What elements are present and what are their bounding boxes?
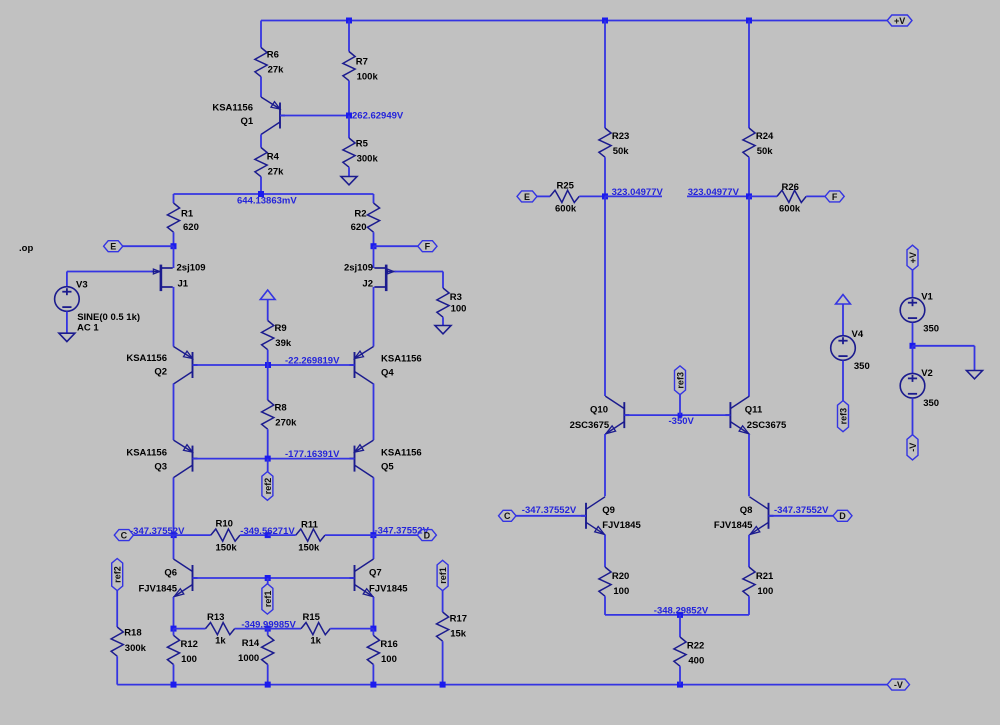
svg-text:Q10: Q10 [590,405,608,416]
wire arrow flag to R9 [267,300,269,321]
svg-text:-V: -V [908,443,918,452]
wire top rail to R23 [604,21,606,129]
svg-text:39k: 39k [275,338,292,349]
wire Q3-Q5 base rail [193,458,355,460]
wire E flag to R25 [537,195,550,197]
flag D (right) [833,510,852,521]
wire Q5 collector to node D [373,478,375,536]
wire node to R26 [749,195,777,197]
wire R4 to node 644mV [260,177,262,194]
wire R17 to bottom rail [442,641,444,684]
wire mid node to ground [913,345,975,347]
svg-text:1000: 1000 [238,653,259,664]
junction node 323V right [746,193,752,199]
wire node -177V to ref2 flag [267,459,269,472]
svg-text:ref3: ref3 [838,408,848,425]
svg-text:.op: .op [19,243,33,254]
svg-text:-347.37552V: -347.37552V [522,505,577,516]
transistor Q2 KSA1156 (PNP) [174,347,198,385]
svg-text:V1: V1 [921,291,933,302]
svg-text:R26: R26 [782,182,799,193]
svg-text:R17: R17 [450,613,467,624]
svg-text:100: 100 [613,586,629,597]
svg-text:150k: 150k [216,542,238,553]
resistor R24 50k [743,128,774,157]
wire R15 to node [330,628,373,630]
svg-text:ref1: ref1 [438,567,448,584]
transistor Q9 FJV1845 (NPN) [581,497,605,535]
junction node -349.99985V [265,626,271,632]
wire R22 to bottom rail [679,666,681,684]
svg-text:R20: R20 [612,571,629,582]
wire down to R3 [442,272,444,289]
flag E (left) [104,241,123,252]
wire node 262V to R5 [348,116,350,139]
wire R20-R21 horizontal [605,614,749,616]
svg-text:350: 350 [923,323,939,334]
wire R11 to node D [325,534,373,536]
wire top rail to R24 [748,21,750,129]
svg-text:V4: V4 [852,329,864,340]
wire R16 to bottom rail [372,665,374,685]
resistor R21 100 [743,567,774,597]
svg-text:100: 100 [381,654,397,665]
wire node to F flag [374,245,418,247]
resistor R12 100 [167,635,198,665]
junction node -348.29852V [677,612,683,618]
resistor R14 1000 [238,635,274,664]
svg-text:J1: J1 [178,279,189,290]
wire node to R11 [268,534,296,536]
svg-text:R13: R13 [207,612,224,623]
wire J2 drain to Q4 emitter [373,287,375,347]
wire node to ref1 flag [267,578,269,584]
wire C flag to Q9 base [516,515,586,517]
wire R12 to bottom rail [173,665,175,685]
svg-text:300k: 300k [125,643,147,654]
junction V1-V2 node [910,343,916,349]
resistor R9 39k [262,321,292,350]
svg-text:600k: 600k [555,204,577,215]
svg-text:R10: R10 [216,518,233,529]
svg-text:2sj109: 2sj109 [177,263,206,274]
svg-text:Q6: Q6 [164,568,177,579]
wire node C to Q6 collector [173,535,175,559]
svg-text:350: 350 [854,361,870,372]
svg-text:R14: R14 [242,638,260,649]
transistor Q6 FJV1845 (NPN) [174,559,198,597]
svg-text:R22: R22 [687,640,704,651]
wire node 323V to Q11 collector [748,196,750,396]
wire J2 gate to R3 [395,271,444,273]
junction node -177V [265,456,271,462]
svg-text:V2: V2 [921,368,933,379]
wire node E to J1 source [173,246,175,268]
svg-text:1k: 1k [215,635,226,646]
svg-text:+V: +V [908,252,918,263]
wire Q1 base to node 262V [280,115,349,117]
resistor R22 400 [674,637,704,666]
svg-text:27k: 27k [268,167,285,178]
svg-text:FJV1845: FJV1845 [369,584,408,595]
svg-text:644.13863mV: 644.13863mV [237,195,297,206]
wire Q3 collector to node C [173,478,175,536]
wire to V3 top [66,272,68,287]
junction top rail / R7 [346,18,352,24]
svg-text:D: D [839,511,846,521]
svg-text:300k: 300k [357,154,379,165]
wire to R1 [173,194,175,203]
svg-text:Q9: Q9 [602,505,615,516]
wire V1 to mid node [912,323,914,346]
wire R14 to bottom rail [267,665,269,685]
svg-text:+V: +V [894,16,905,26]
wire node F to J2 source [373,246,375,268]
svg-text:Q7: Q7 [369,568,382,579]
wire R25 to node [579,195,605,197]
wire R21 to node -348V [748,596,750,615]
wire R5 to ground [348,167,350,176]
wire R26 to F flag [806,195,825,197]
transistor Q7 FJV1845 (NPN) [350,559,374,597]
svg-text:262.62949V: 262.62949V [352,111,404,122]
svg-text:2SC3675: 2SC3675 [570,420,610,431]
wire R9 to node -22V [267,350,269,365]
resistor R16 100 [367,635,398,665]
flag C (right) [499,510,517,521]
svg-text:Q2: Q2 [154,366,167,377]
svg-text:600k: 600k [779,204,801,215]
voltage source V1 [900,298,925,323]
svg-text:R24: R24 [756,131,774,142]
wire Q11 emitter to Q8 collector [748,434,750,496]
svg-text:E: E [110,242,116,252]
resistor R25 600k [550,181,579,215]
svg-text:R23: R23 [612,131,629,142]
svg-text:KSA1156: KSA1156 [381,353,422,364]
svg-text:Q11: Q11 [745,405,763,416]
svg-text:150k: 150k [298,542,320,553]
svg-text:R25: R25 [557,181,575,192]
resistor R18 300k [111,627,147,656]
wire R7 to node 262V [348,81,350,116]
svg-text:R5: R5 [356,139,369,150]
resistor R13 1k [206,612,235,647]
resistor R4 27k [255,148,284,178]
wire ref1 flag to R17 [442,591,444,612]
resistor R23 50k [599,128,629,157]
flag -V (bottom rail) [887,679,909,690]
junction top rail / R24 [746,18,752,24]
junction node E (left) [171,243,177,249]
wire top rail to R7 [348,21,350,52]
svg-text:SINE(0 0.5 1k): SINE(0 0.5 1k) [77,312,140,323]
svg-text:FJV1845: FJV1845 [138,584,177,595]
wire J1 drain to Q2 emitter [173,287,175,347]
svg-text:-347.37552V: -347.37552V [774,505,829,516]
flag ref3 (center) [675,366,686,395]
junction node 644mV [258,191,264,197]
junction node -22V [265,362,271,368]
transistor Q1 KSA1156 (PNP) [261,97,285,135]
junction Q7 emitter node [370,626,376,632]
transistor Q5 KSA1156 (PNP) [350,440,374,478]
wire ref2 flag to R18 [116,590,118,627]
svg-text:E: E [524,192,530,202]
wire R23 to node 323V left [604,157,606,196]
wire ref3 flag to node -350V [679,395,681,415]
junction bottom rail R16 [370,682,376,688]
wire V3 to J1 gate [67,271,153,273]
resistor R2 620 [351,203,380,233]
svg-text:R11: R11 [301,519,319,530]
svg-text:2sj109: 2sj109 [344,263,373,274]
svg-text:Q5: Q5 [381,462,394,473]
svg-text:R2: R2 [354,209,366,220]
svg-text:F: F [832,192,838,202]
svg-text:FJV1845: FJV1845 [714,520,753,531]
wire Q1 collector to R4 [260,135,262,148]
svg-text:V3: V3 [76,279,88,290]
resistor R8 270k [262,400,298,429]
svg-text:F: F [425,242,431,252]
transistor Q10 2SC3675 (NPN) [605,396,629,434]
arrow flag above V4 [836,295,851,305]
svg-text:100: 100 [757,586,773,597]
svg-text:350: 350 [923,398,939,409]
wire +V flag to V1 [912,270,914,297]
flag F (right) [825,191,844,202]
wire R8 to node -177V [267,429,269,458]
svg-text:R8: R8 [275,403,287,414]
junction top rail / R23 [602,18,608,24]
svg-text:R7: R7 [356,57,368,68]
svg-text:Q3: Q3 [154,462,167,473]
transistor Q11 2SC3675 (NPN) [725,396,749,434]
wire down to ground [974,346,976,371]
svg-text:ref1: ref1 [263,591,273,608]
wire V3 bottom to ground [66,312,68,334]
wire arrow flag to V4 [842,304,844,335]
flag +V (top rail) [887,15,912,26]
svg-text:R15: R15 [303,612,321,623]
wire R13 to node [235,628,268,630]
transistor Q4 KSA1156 (PNP) [350,347,374,385]
svg-text:R16: R16 [380,639,397,650]
svg-text:Q1: Q1 [241,116,254,127]
ground right of V1/V2 [967,371,983,379]
svg-text:100: 100 [181,654,197,665]
svg-text:KSA1156: KSA1156 [381,448,422,459]
svg-text:D: D [424,531,431,541]
wire node 644mV horizontal R1-R2 [174,193,374,195]
svg-text:Q4: Q4 [381,367,394,378]
wire Q2 collector to Q3 emitter [173,384,175,441]
flag D (left) [417,530,436,541]
flag ref2 (left) [112,559,123,591]
resistor R11 150k [296,519,325,553]
svg-text:323.04977V: 323.04977V [688,187,740,198]
svg-text:620: 620 [183,222,199,233]
voltage source V3 [55,287,80,312]
svg-text:R21: R21 [756,571,774,582]
svg-text:323.04977V: 323.04977V [612,187,664,198]
wire Q10-Q11 base rail [624,414,730,416]
svg-text:R3: R3 [450,292,462,303]
junction node -350V [678,413,683,418]
svg-text:-350V: -350V [669,416,695,427]
junction node 262.62949V [346,113,352,119]
wire R24 to node 323V right [748,157,750,196]
wire node -348V to R22 [679,615,681,637]
svg-text:50k: 50k [613,146,630,157]
svg-text:KSA1156: KSA1156 [126,448,167,459]
junction bottom rail R22 [677,682,683,688]
transistor Q3 KSA1156 (PNP) [174,440,198,478]
svg-text:KSA1156: KSA1156 [212,102,253,113]
svg-text:2SC3675: 2SC3675 [747,420,787,431]
ground below V3 [59,333,75,341]
resistor R5 300k [343,138,379,167]
flag ref1 (right) [437,560,448,590]
junction Q6 emitter node [171,626,177,632]
svg-text:C: C [504,511,511,521]
JFET J1 2sj109 (P-ch) [151,265,173,292]
wire to R2 [373,194,375,203]
svg-text:-V: -V [894,680,903,690]
svg-text:R1: R1 [181,209,194,220]
resistor R15 1k [301,612,330,647]
flag ref1 (center) [262,584,273,614]
wire node to R15 [268,628,301,630]
wire V2 to -V flag [912,398,914,434]
svg-text:R12: R12 [181,639,198,650]
wire stub node 323V right [687,195,749,197]
svg-text:-22.269819V: -22.269819V [285,356,340,367]
wire node to R14 [267,629,269,636]
wire V4 to ref3 flag [842,361,844,401]
wire -V bottom rail [117,684,887,686]
junction node C (left) [171,532,177,538]
wire stub node 323V left [605,195,662,197]
junction node D (left) [370,532,376,538]
wire R10 to node -349.5V [240,534,268,536]
wire R18 to bottom rail [116,656,118,684]
flag -V (below V2) [907,435,918,460]
wire E flag to node [123,245,174,247]
wire Q9 emitter to R20 [604,535,606,567]
svg-text:100k: 100k [357,72,379,83]
svg-text:R18: R18 [124,627,141,638]
wire mid node to V2 [912,346,914,373]
transistor Q8 FJV1845 (NPN) [750,497,774,535]
svg-text:R4: R4 [267,152,280,163]
wire R20 to node -348V [604,596,606,615]
wire Q10 emitter to Q9 collector [604,434,606,496]
wire node 323V to Q10 collector [604,196,606,396]
flag E (right) [517,191,537,202]
svg-text:ref2: ref2 [113,566,123,583]
wire top rail to R6 [260,21,262,48]
voltage source V2 [900,373,925,398]
svg-text:R9: R9 [275,323,287,334]
svg-text:AC 1: AC 1 [77,322,99,333]
svg-text:FJV1845: FJV1845 [602,520,641,531]
wire +V top rail [261,20,887,22]
svg-text:ref2: ref2 [263,478,273,495]
junction node F (left) [371,243,377,249]
wire C flag to node C [134,534,174,536]
wire R6 to Q1 emitter [260,77,262,97]
svg-text:27k: 27k [268,65,285,76]
voltage source V4 [831,336,856,361]
wire Q7 emitter to node [373,597,375,629]
wire node D to Q7 collector [373,535,375,559]
resistor R26 600k [777,182,806,215]
resistor R20 100 [599,567,629,597]
ground below R3 [435,326,451,334]
resistor R7 100k [343,52,379,83]
resistor R1 620 [167,203,198,233]
wire Q6 emitter to node [173,597,175,629]
resistor R3 100 [437,288,467,317]
junction node ref1 [265,575,271,581]
resistor R10 150k [211,518,240,553]
wire Q8 emitter to R21 [748,535,750,567]
wire R3 to ground [442,317,444,325]
junction bottom rail R17 [440,682,446,688]
wire node to R16 [372,629,374,636]
arrow flag above R9 [260,290,275,300]
flag C (left) [114,530,133,541]
svg-text:-177.16391V: -177.16391V [285,449,340,460]
wire Q4 collector to Q5 emitter [373,384,375,441]
svg-text:50k: 50k [757,146,774,157]
JFET J2 2sj109 (P-ch) [374,265,396,292]
svg-text:1k: 1k [310,635,321,646]
junction node 323V left [602,193,608,199]
flag +V (above V1) [907,245,918,270]
flag ref3 (below V4) [838,401,849,432]
wire Q8 base to D flag [769,515,834,517]
wire node to R12 [173,629,175,636]
junction bottom rail R14 [265,682,271,688]
svg-text:620: 620 [351,222,367,233]
svg-text:Q8: Q8 [740,505,753,516]
svg-text:400: 400 [688,655,704,666]
svg-text:15k: 15k [450,628,467,639]
ground below R5 [341,177,357,185]
flag F (left) [418,241,437,252]
svg-text:KSA1156: KSA1156 [126,353,167,364]
wire node -22V to R8 [267,365,269,400]
flag ref2 (center) [262,472,273,501]
svg-text:100: 100 [451,304,467,315]
wire R1 to node E [173,232,175,246]
junction node -349.56271V [265,532,271,538]
svg-text:R6: R6 [267,50,279,61]
svg-text:ref3: ref3 [675,372,685,389]
resistor R6 27k [255,48,284,77]
svg-text:J2: J2 [362,279,373,290]
wire Q6-Q7 base rail [193,577,355,579]
resistor R17 15k [437,612,468,641]
svg-text:-348.29852V: -348.29852V [654,605,709,616]
svg-text:C: C [121,531,128,541]
wire Q2-Q4 base rail [193,364,355,366]
wire R2 to node F [373,232,375,246]
wire node C to R10 [174,534,211,536]
